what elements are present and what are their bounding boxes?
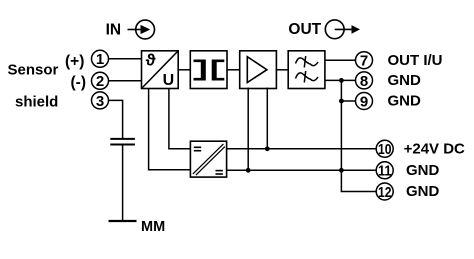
filter F1 — [288, 51, 325, 89]
svg-text:2: 2 — [96, 73, 104, 90]
OUT direction icon — [325, 20, 360, 39]
svg-text:+24V DC: +24V DC — [404, 140, 465, 157]
svg-text:GND: GND — [388, 72, 422, 89]
svg-text:12: 12 — [378, 184, 392, 201]
junction amplifier +24V — [265, 146, 270, 151]
wire capacitor C1 to ground MM — [122, 146, 124, 221]
ground MM — [109, 220, 137, 222]
terminal 8 — [356, 72, 373, 90]
svg-text:shield: shield — [15, 93, 58, 110]
transformer T1 (galvanic isolation) — [190, 51, 227, 89]
svg-text:MM: MM — [141, 219, 165, 235]
svg-text:1: 1 — [96, 51, 104, 68]
svg-text:GND: GND — [406, 183, 440, 200]
svg-text:GND: GND — [406, 162, 440, 179]
converter U1 (temperature to voltage) — [142, 50, 179, 89]
wire terminal 1 to converter U1 — [109, 58, 142, 60]
wire terminal 3 to capacitor C1 — [109, 100, 123, 138]
wire amplifier A1 to filter F1 — [276, 69, 288, 71]
terminal 11 — [376, 162, 393, 180]
svg-text:GND: GND — [388, 93, 422, 110]
svg-text:ϑ: ϑ — [146, 50, 156, 69]
wire to terminal 9 — [341, 100, 355, 102]
wire filter F1 to terminal 7 — [325, 59, 356, 61]
capacitor C1 — [110, 139, 135, 145]
wire amplifier A1 supply to GND rail — [247, 88, 249, 171]
svg-text:IN: IN — [106, 22, 122, 39]
wire filter F1 to terminal 8 — [325, 79, 356, 81]
wire amplifier A1 supply to +24V rail — [266, 88, 268, 149]
dc/dc converter U2 — [190, 141, 226, 177]
wire converter U1 to dc/dc converter U2 (upper rail) — [169, 89, 191, 149]
wire dc/dc U2 to terminal 11 (GND rail) — [227, 169, 377, 171]
svg-text:OUT: OUT — [288, 21, 321, 38]
terminal 9 — [356, 93, 373, 111]
wire converter U1 to dc/dc converter U2 (lower rail) — [149, 89, 191, 170]
terminal 3 — [92, 92, 109, 110]
svg-text:11: 11 — [378, 163, 392, 180]
junction at node GND out — [339, 78, 344, 83]
svg-text:10: 10 — [378, 141, 392, 158]
wire terminal 2 to converter U1 — [109, 80, 142, 82]
wire GND bus vertical — [341, 80, 376, 191]
svg-text:OUT I/U: OUT I/U — [388, 52, 443, 69]
terminal 2 — [92, 72, 109, 90]
svg-text:Sensor: Sensor — [8, 61, 59, 78]
svg-text:U: U — [163, 72, 175, 89]
terminal 12 — [376, 183, 393, 201]
svg-text:9: 9 — [360, 93, 368, 110]
terminal 1 — [92, 50, 109, 68]
amplifier A1 — [240, 51, 277, 89]
terminal 10 — [376, 140, 393, 158]
junction terminal 9 branch — [339, 99, 344, 104]
IN direction icon — [128, 20, 155, 39]
junction amplifier GND — [246, 168, 251, 173]
svg-text:8: 8 — [360, 73, 368, 90]
svg-text:(-): (-) — [71, 74, 87, 91]
junction terminal 11 branch — [339, 168, 344, 173]
svg-text:7: 7 — [360, 53, 368, 70]
wire transformer T1 to amplifier A1 — [227, 69, 240, 71]
svg-text:(+): (+) — [65, 53, 84, 70]
terminal 7 — [356, 52, 373, 70]
wire converter U1 to transformer T1 — [178, 69, 190, 71]
wire dc/dc U2 to terminal 10 (+24V rail) — [227, 148, 377, 150]
svg-text:3: 3 — [96, 93, 104, 110]
